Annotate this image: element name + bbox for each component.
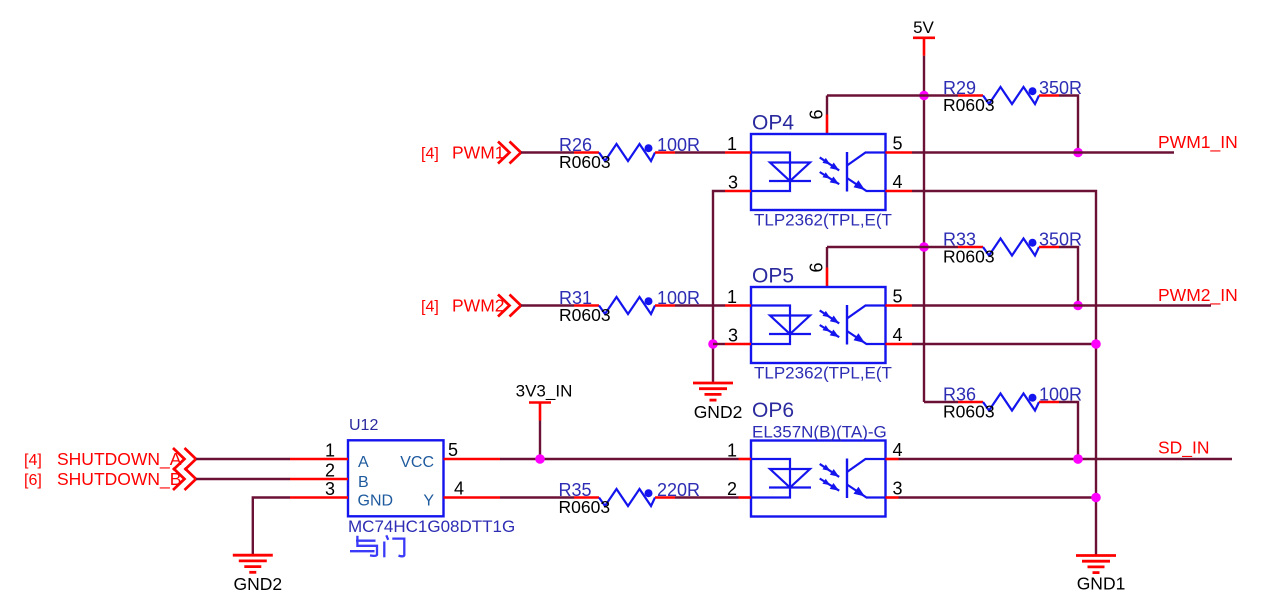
node junction 5V/R33 <box>919 242 929 252</box>
wire OP5 pin3 <box>713 343 725 345</box>
svg-text:1: 1 <box>325 441 335 461</box>
resistor R26 <box>574 151 599 154</box>
resistor R36 <box>958 401 983 404</box>
pin OP4 pin6 stub <box>826 115 829 135</box>
node junction OP6 pin3 <box>1091 493 1101 503</box>
pin OP5.1 stub <box>725 304 751 307</box>
pin OP6.3 stub <box>886 496 899 499</box>
wire OP4 pin6 horizontal <box>827 94 924 96</box>
wire OP5 pin6 vertical <box>826 247 828 268</box>
node junction 5V/R29 <box>919 91 929 101</box>
node junction R33 drop <box>1073 301 1083 311</box>
pin OP4.5 stub <box>886 151 913 154</box>
svg-text:SHUTDOWN_A: SHUTDOWN_A <box>57 449 182 470</box>
wire OP6 pin3 join <box>899 496 1097 498</box>
svg-text:OP5: OP5 <box>752 265 794 288</box>
svg-text:TLP2362(TPL,E(T: TLP2362(TPL,E(T <box>754 364 892 383</box>
pin OP5 pin6 stub <box>826 268 829 288</box>
svg-text:5: 5 <box>893 134 903 154</box>
svg-text:4: 4 <box>893 325 903 345</box>
svg-text:2: 2 <box>727 479 737 499</box>
label U12 comment CJK (AND gate) <box>356 540 376 542</box>
resistor R31 <box>574 304 599 307</box>
svg-text:[4]: [4] <box>421 146 439 163</box>
svg-text:6: 6 <box>807 262 827 272</box>
wire net PWM2_IN <box>912 304 1211 306</box>
svg-text:R0603: R0603 <box>943 247 995 267</box>
resistor R33 <box>958 246 983 249</box>
wire U12 pin3 to GND2 <box>253 498 290 556</box>
svg-text:GND: GND <box>358 493 394 510</box>
wire OP5 pin4 join <box>912 343 1096 345</box>
svg-text:5: 5 <box>448 440 458 460</box>
wire 5V to R33 <box>924 246 958 248</box>
svg-text:4: 4 <box>454 479 464 499</box>
svg-text:R0603: R0603 <box>559 305 611 325</box>
ground GND1 <box>1076 554 1116 557</box>
svg-text:MC74HC1G08DTT1G: MC74HC1G08DTT1G <box>348 517 515 536</box>
pin OP5.5 stub <box>886 304 913 307</box>
wire net SD_IN <box>899 458 1233 460</box>
svg-text:GND2: GND2 <box>233 574 282 594</box>
pin OP5.3 stub <box>725 343 751 346</box>
svg-text:2: 2 <box>325 461 335 481</box>
svg-text:OP6: OP6 <box>752 399 794 422</box>
svg-text:R0603: R0603 <box>943 95 995 115</box>
svg-text:SD_IN: SD_IN <box>1158 438 1210 459</box>
svg-text:5: 5 <box>893 287 903 307</box>
svg-text:3V3_IN: 3V3_IN <box>516 382 573 401</box>
pin OP6.4 stub <box>886 458 899 461</box>
pin OP6.1 stub <box>739 458 752 461</box>
pin U12.3 stub <box>290 496 348 499</box>
wire R29 output <box>1059 96 1078 153</box>
power 3V3_IN symbol <box>529 401 551 404</box>
op-coupler OP5 body <box>751 287 886 363</box>
wire U12 pin5 to OP6 pin1 <box>500 458 739 460</box>
svg-text:1: 1 <box>727 287 737 307</box>
svg-text:U12: U12 <box>349 417 378 434</box>
pin U12.5 stub <box>444 458 501 461</box>
svg-text:R0603: R0603 <box>943 402 995 422</box>
pin OP5.4 stub <box>886 343 913 346</box>
pin OP4.3 stub <box>725 190 751 193</box>
svg-text:6: 6 <box>807 109 827 119</box>
pin U12.4 stub <box>444 496 501 499</box>
wire 3V3_IN vertical <box>539 421 541 460</box>
port PWM1 chevron <box>510 142 522 164</box>
wire 5V vertical <box>923 56 925 402</box>
pin OP4.4 stub <box>886 190 913 193</box>
svg-text:3: 3 <box>728 173 738 193</box>
node junction OP5 pin4 <box>1091 339 1101 349</box>
node junction 3V3_IN <box>535 454 545 464</box>
svg-text:GND1: GND1 <box>1077 574 1126 594</box>
svg-text:[6]: [6] <box>24 472 42 489</box>
svg-text:4: 4 <box>893 172 903 192</box>
wire PWM2 to R31 <box>521 304 574 306</box>
wire SHUTDOWN_B <box>196 478 290 480</box>
pin OP6.2 stub <box>739 496 752 499</box>
port PWM2 chevron <box>510 295 522 317</box>
svg-text:PWM2_IN: PWM2_IN <box>1158 285 1238 306</box>
svg-text:PWM1: PWM1 <box>452 143 505 163</box>
node junction OP5 pin3 <box>708 339 718 349</box>
svg-text:EL357N(B)(TA)-G: EL357N(B)(TA)-G <box>752 423 887 442</box>
resistor R29 <box>958 94 983 97</box>
svg-text:OP4: OP4 <box>752 112 794 135</box>
svg-text:R0603: R0603 <box>559 497 611 517</box>
power 5V symbol <box>913 36 935 39</box>
port SHUTDOWN_B chevron <box>185 468 197 490</box>
svg-text:R0603: R0603 <box>559 152 611 172</box>
svg-text:B: B <box>358 474 369 491</box>
wire SHUTDOWN_A <box>196 458 290 460</box>
pin OP4.1 stub <box>725 151 751 154</box>
wire R36 output <box>1059 402 1078 459</box>
svg-text:SHUTDOWN_B: SHUTDOWN_B <box>57 469 181 490</box>
node junction SD_IN <box>1073 454 1083 464</box>
svg-text:1: 1 <box>727 134 737 154</box>
svg-text:A: A <box>358 454 369 471</box>
pin U12.1 stub <box>290 458 348 461</box>
gate U12 body <box>348 440 444 516</box>
wire OP5 pin6 horizontal <box>827 246 924 248</box>
svg-text:1: 1 <box>727 441 737 461</box>
port SHUTDOWN_A chevron <box>185 448 197 470</box>
wire net PWM1_IN <box>912 151 1174 153</box>
node junction R36 drop <box>1073 454 1083 464</box>
svg-text:[4]: [4] <box>24 452 42 469</box>
op-coupler OP4 body <box>751 134 886 210</box>
resistor R35 <box>574 496 599 499</box>
wire U12 pin4 to R35 <box>500 496 574 498</box>
svg-text:Y: Y <box>423 493 434 510</box>
pin U12.2 stub <box>290 478 348 481</box>
wire R26 to OP4 pin1 <box>675 151 725 153</box>
wire 5V to R29 <box>924 94 958 96</box>
wire R33 output <box>1059 247 1078 306</box>
op-coupler OP6 body <box>751 441 886 517</box>
wire OP4 pin6 vertical <box>826 96 828 115</box>
svg-text:PWM1_IN: PWM1_IN <box>1158 132 1238 153</box>
svg-text:VCC: VCC <box>400 454 434 471</box>
svg-text:TLP2362(TPL,E(T: TLP2362(TPL,E(T <box>754 211 892 230</box>
svg-text:GND2: GND2 <box>694 402 743 422</box>
svg-text:PWM2: PWM2 <box>452 296 505 316</box>
wire OP4 pin3 to GND2 <box>713 191 725 383</box>
wire PWM1 to R26 <box>521 151 574 153</box>
node junction R29 drop <box>1073 148 1083 158</box>
wire 5V to R36 <box>924 401 958 403</box>
wire R35 to OP6 pin2 <box>675 496 739 498</box>
svg-text:[4]: [4] <box>421 299 439 316</box>
wire R31 to OP5 pin1 <box>675 304 725 306</box>
svg-text:3: 3 <box>325 479 335 499</box>
svg-text:5V: 5V <box>913 18 934 37</box>
wire OP4 pin4 to GND1 rail <box>912 191 1096 556</box>
ground GND2 (bottom left) <box>233 554 273 557</box>
svg-text:4: 4 <box>893 440 903 460</box>
ground GND2 (mid) <box>693 382 733 385</box>
svg-text:3: 3 <box>728 326 738 346</box>
svg-text:3: 3 <box>893 479 903 499</box>
